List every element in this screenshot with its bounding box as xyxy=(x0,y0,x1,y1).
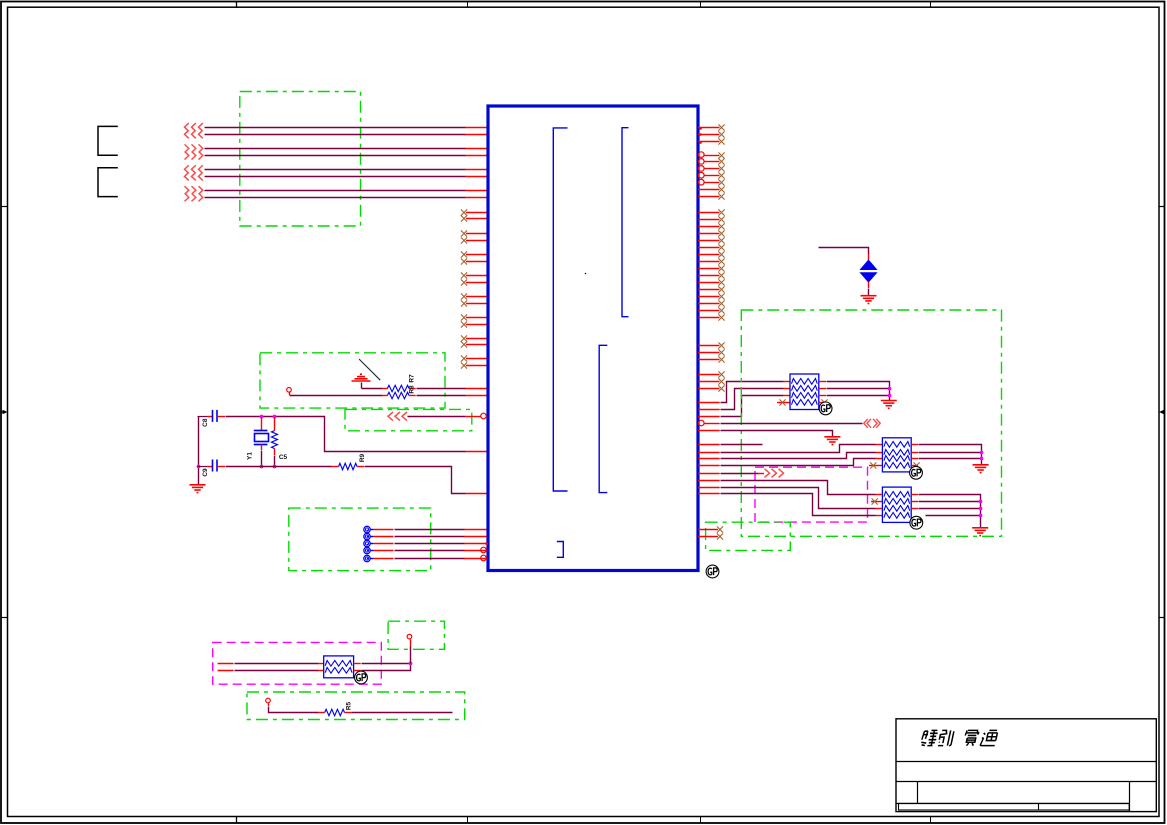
svg-text:R7: R7 xyxy=(409,374,416,383)
off-page connector double chevrons xyxy=(864,419,880,428)
no-connect x RP1 row4 right xyxy=(819,402,826,404)
no-connect pin right D5 xyxy=(698,240,720,242)
no-connect pin left pair3 xyxy=(466,261,487,263)
resistor R row2 right wire to IC xyxy=(409,395,416,397)
resistor R2 (row2) xyxy=(387,392,409,398)
wire RP3 row3 right xyxy=(911,508,918,510)
wire RP4 row2 left xyxy=(218,670,234,672)
no-connect pin left pair7 xyxy=(466,338,487,340)
wire dead-end stub xyxy=(698,444,720,446)
wire xtal top xyxy=(226,417,466,452)
wire IC to RP2 row3 xyxy=(698,465,720,467)
junction dot RP4 xyxy=(409,662,413,666)
wire bottom group row5 xyxy=(370,558,373,560)
junction dot RP3 row3 xyxy=(979,507,983,511)
row2 stem from terminal xyxy=(289,392,291,395)
stem from inverted ground to wire xyxy=(361,383,363,389)
wire bus pair 1 lower xyxy=(205,134,466,136)
title block row divider 2 xyxy=(896,781,1156,783)
ground crystal circuit xyxy=(190,485,206,493)
off-page connector chevrons pair 4 xyxy=(185,186,189,201)
border zone tick top 3 xyxy=(700,1,702,7)
ground diode xyxy=(861,296,877,304)
wire xtal left vertical xyxy=(198,417,200,486)
no-connect pin left pair5 xyxy=(466,296,487,298)
wire bus pair 2 lower xyxy=(205,155,466,157)
svg-text:Y1: Y1 xyxy=(246,452,253,460)
border zone tick bottom 2 xyxy=(467,817,469,824)
no-connect pin left pair2 xyxy=(466,240,487,242)
green dashed box (pull-up terminal) xyxy=(388,621,444,649)
wire bottom group row2 xyxy=(370,536,373,538)
junction dot RP3 row2 xyxy=(979,500,983,504)
wire IC to RP1 row1 xyxy=(698,402,720,404)
no-connect pin left pair7 xyxy=(466,344,487,346)
resistor pack RP1 xyxy=(790,374,819,410)
border zone tick bottom 1 xyxy=(236,817,238,824)
border zone tick bottom 4 xyxy=(930,817,932,824)
no-connect pin right D6 xyxy=(698,247,720,249)
GP symbol RP2 xyxy=(910,466,923,479)
svg-text:C8: C8 xyxy=(202,418,209,427)
junction dot RP1 row3 xyxy=(888,394,892,398)
border zone tick top 1 xyxy=(236,1,238,7)
no-connect pin left pair2 xyxy=(466,233,487,235)
title block row divider 1 xyxy=(896,761,1156,763)
IC U1 inner bracket 1 xyxy=(553,128,567,491)
wire RP4 row1 right xyxy=(354,663,361,665)
wire clock out xyxy=(704,423,719,425)
IC U1 stray dot xyxy=(585,273,587,275)
junction dot RP1 row2 xyxy=(888,387,892,391)
title block bottom strip xyxy=(899,803,1130,810)
resistor pack RP3 xyxy=(882,487,911,522)
no-connect pin right D2 xyxy=(698,219,720,221)
title block outer rectangle xyxy=(896,719,1156,812)
no-connect x RP2 row4 left xyxy=(869,465,882,467)
no-connect pin right D9 xyxy=(698,268,720,270)
no-connect pin right B2 (inverted) xyxy=(699,159,705,165)
title block bottom strip divider xyxy=(1038,803,1040,810)
ground RP2 xyxy=(973,465,989,473)
border zone tick bottom 3 xyxy=(700,817,702,824)
off-page connector chevrons pair 2 xyxy=(185,144,189,159)
svg-text:C9: C9 xyxy=(202,468,209,477)
no-connect pin right A3 xyxy=(698,141,720,143)
wire RP4 row2 right xyxy=(354,670,361,672)
title block company name text (stylized hanzi) xyxy=(921,730,939,745)
terminal circle bottom group row4 xyxy=(364,547,370,553)
wire diode to ground xyxy=(868,282,870,288)
wire IC to RP1 row3 xyxy=(698,416,720,418)
wire RP2 row3 right xyxy=(911,458,918,460)
no-connect pin right D11 xyxy=(698,282,720,284)
resistor R1 (row1) xyxy=(387,385,409,391)
green dashed box (pullup resistor group) xyxy=(260,353,445,408)
inverted pin circle right (clock out) xyxy=(699,420,705,426)
terminal circle green box4 xyxy=(407,634,412,639)
no-connect pin right B3 (inverted) xyxy=(699,166,705,172)
border zone tick right lower xyxy=(1159,617,1164,619)
no-connect pin right D13 xyxy=(698,296,720,298)
resistor R row1 left wire xyxy=(362,388,383,390)
wire IC to RP2 row2 xyxy=(698,458,720,460)
border center arrow left xyxy=(0,410,8,414)
wire bottom group row1 xyxy=(370,529,373,531)
no-connect pin right D8 xyxy=(698,261,720,263)
junction dot RP2 row3 xyxy=(980,457,984,461)
no-connect pin right A2 xyxy=(698,134,720,136)
resistor R row1 right wire to IC xyxy=(409,388,416,390)
wire bus pair 3 upper xyxy=(205,169,466,171)
capacitor C1 top xyxy=(198,416,208,418)
junction dot xtal top 2 xyxy=(273,415,277,419)
wire RP3 row2 right xyxy=(911,501,918,503)
junction dot xtal bottom 1 xyxy=(260,465,264,469)
no-connect pin right D10 xyxy=(698,275,720,277)
wire diode feed xyxy=(819,248,869,255)
wire xtal bottom to IC xyxy=(357,466,364,468)
terminal circle green box5 xyxy=(266,698,271,703)
svg-text:R5: R5 xyxy=(345,701,352,710)
no-connect pin right A1 xyxy=(698,127,720,129)
wire IC to RP3 row4 xyxy=(698,493,720,495)
no-connect pin right E2 xyxy=(698,352,720,354)
green dashed box (termination network group) xyxy=(741,310,1001,536)
terminal circle bottom group row2 xyxy=(364,533,370,539)
no-connect pin left pair8 xyxy=(466,365,487,367)
no-connect pin right E5 xyxy=(698,381,720,383)
no-connect pin left pair1 xyxy=(466,212,487,214)
junction dot RP3 row4 xyxy=(979,514,983,518)
border zone tick right upper xyxy=(1159,206,1164,208)
IC U1 main rectangle xyxy=(488,106,698,571)
off-page connector chevrons pair 3 xyxy=(185,165,189,180)
wire RP4 row1 left xyxy=(218,663,234,665)
inverted pin circle row5 xyxy=(481,555,487,561)
wire RP1 row2 right xyxy=(819,388,826,390)
ground RP1 xyxy=(881,401,897,409)
wire IC to >>> connector xyxy=(698,473,720,475)
wire to local ground xyxy=(698,430,720,432)
no-connect pin right F2 xyxy=(698,536,718,538)
title block cell divider left xyxy=(917,781,919,803)
wire box5 left xyxy=(268,703,270,706)
wire RP2 row2 right xyxy=(911,452,918,454)
no-connect pin right D14 xyxy=(698,303,720,305)
svg-text:R8: R8 xyxy=(409,385,416,394)
no-connect pin left pair1 xyxy=(466,218,487,220)
no-connect x RP1 row4 left xyxy=(777,402,790,404)
wire bus pair 3 lower xyxy=(205,176,466,178)
border zone tick top 4 xyxy=(930,1,932,7)
connector bracket J2 xyxy=(98,168,118,197)
junction dot xtal bottom 2 xyxy=(273,465,277,469)
terminal circle row2 xyxy=(287,388,292,393)
svg-text:R9: R9 xyxy=(359,453,366,462)
inverted earth ground above R row1 xyxy=(352,374,371,381)
crystal Y1 xyxy=(261,417,263,430)
magenta dashed box (bottom) xyxy=(213,642,382,684)
no-connect pin left pair6 xyxy=(466,317,487,319)
wire RP3 row4 right xyxy=(926,515,981,517)
wire bus pair 1 upper xyxy=(205,127,466,129)
wire IC to RP3 row3 xyxy=(698,487,720,489)
svg-text:C5: C5 xyxy=(279,454,288,461)
magenta dashed box (bus request group) xyxy=(755,467,868,522)
resistor pack RP4 xyxy=(324,656,354,678)
no-connect x RP2 row4 right xyxy=(911,465,918,467)
resistor R row2 left wire xyxy=(290,395,383,397)
IC U1 inner bracket 3 xyxy=(599,345,607,492)
no-connect pin left pair5 xyxy=(466,303,487,305)
no-connect pin right D16 xyxy=(698,317,720,319)
wire RP4 to terminal xyxy=(410,647,412,664)
capacitor C2 bottom xyxy=(198,466,208,468)
no-connect pin left pair4 xyxy=(466,275,487,277)
ground RP3 xyxy=(972,528,988,536)
no-connect pin right D7 xyxy=(698,254,720,256)
wire bus pair 4 lower xyxy=(205,197,466,199)
title block cell divider right xyxy=(1129,781,1131,811)
no-connect pin right E1 xyxy=(698,345,720,347)
off-page connector chevrons pair 1 xyxy=(185,123,189,138)
terminal circle bottom group row3 xyxy=(364,540,370,546)
green dashed box (bottom-left signal group) xyxy=(289,508,431,570)
wire IC to RP1 row2 xyxy=(698,409,720,411)
wire RP1 row1 right to ground xyxy=(819,381,826,383)
junction dot xtal top 1 xyxy=(260,415,264,419)
no-connect pin left pair8 xyxy=(466,358,487,360)
no-connect pin right C2 xyxy=(698,196,720,198)
resistor R3 (parallel) xyxy=(274,417,276,431)
no-connect pin right D4 xyxy=(698,233,720,235)
resistor pack RP2 xyxy=(882,438,911,472)
no-stuff slash line xyxy=(359,359,380,380)
terminal circle bottom group row5 xyxy=(364,555,370,561)
border zone tick left lower xyxy=(1,617,8,619)
no-connect x RP3 row2 left xyxy=(871,501,882,503)
wire RP3 row1 right to ground xyxy=(911,494,918,496)
no-connect pin right D15 xyxy=(698,310,720,312)
wire xtal bottom xyxy=(226,466,332,468)
no-connect pin right E6 xyxy=(698,388,720,390)
terminal circle bottom group row1 xyxy=(364,526,370,532)
wire bottom group row3 xyxy=(370,543,373,545)
no-connect pin right B5 (inverted) xyxy=(699,179,705,185)
ground mid xyxy=(824,437,840,445)
no-connect pin left pair4 xyxy=(466,282,487,284)
title block row divider 3 xyxy=(896,803,1129,805)
green dashed box (top bus group) xyxy=(240,92,361,227)
junction dot row3 at IC xyxy=(485,542,488,545)
no-connect pin right E4 xyxy=(698,374,720,376)
resistor R4 series xyxy=(339,463,357,469)
IC U1 inner bracket 2 xyxy=(622,128,629,317)
wire IC to RP3 row1 xyxy=(698,480,720,482)
wire RP2 row1 right to ground xyxy=(911,444,918,446)
IC U1 inner bracket 4 xyxy=(557,542,564,558)
border zone tick top 2 xyxy=(467,1,469,7)
GP symbol RP1 xyxy=(819,402,832,415)
no-connect pin right E3 xyxy=(698,359,720,361)
no-connect pin left pair3 xyxy=(466,254,487,256)
no-connect pin right B1 (inverted) xyxy=(699,152,705,158)
no-connect pin right D12 xyxy=(698,289,720,291)
inverted pin circle on IC left xyxy=(481,413,487,419)
wire bus pair 4 upper xyxy=(205,190,466,192)
no-connect pin right C1 xyxy=(698,189,720,191)
inverted pin circle row4 xyxy=(481,547,487,553)
junction dot xtal left bottom xyxy=(197,465,201,469)
off-page connector >>> xyxy=(765,469,770,478)
no-connect pin left pair6 xyxy=(466,324,487,326)
resistor R5 xyxy=(325,709,345,715)
no-connect pin right D3 xyxy=(698,226,720,228)
IC U1 GP symbol xyxy=(706,565,719,578)
off-page connector <<< xyxy=(388,412,393,421)
wire IC to RP2 row1 xyxy=(698,452,720,454)
no-connect pin right F1 xyxy=(698,529,718,531)
no-connect pin right D1 xyxy=(698,212,720,214)
GP symbol RP3 xyxy=(910,516,923,529)
junction dot RP2 row2 xyxy=(980,451,984,455)
green dashed box (spare pins) xyxy=(706,522,791,550)
wire RP1 row3 right xyxy=(819,395,826,397)
green dashed box (bottom single signal) xyxy=(247,692,465,720)
wire reset to IC xyxy=(408,416,466,418)
green dashed box (reset signal) xyxy=(345,409,472,430)
border center arrow right xyxy=(1159,410,1164,414)
no-connect pin right B4 (inverted) xyxy=(699,172,705,178)
wire bus pair 2 upper xyxy=(205,148,466,150)
border zone tick left upper xyxy=(1,206,8,208)
wire box5 right xyxy=(345,712,352,714)
connector bracket J1 xyxy=(98,126,118,155)
wire bottom group row4 xyxy=(370,550,373,552)
GP symbol RP4 xyxy=(355,671,368,684)
diode D1 (transient suppressor) xyxy=(861,260,877,269)
